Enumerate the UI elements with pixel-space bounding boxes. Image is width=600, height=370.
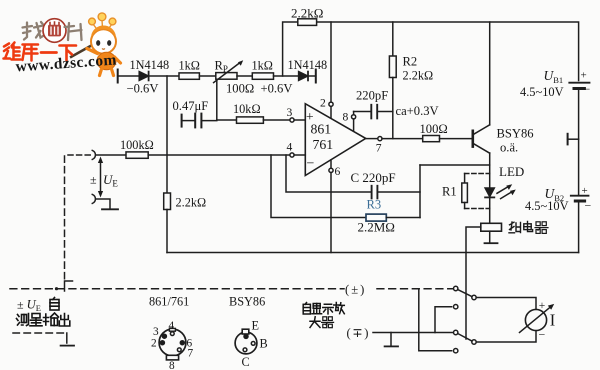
wire R2 to output node (392, 78, 394, 139)
dashed wire measurement vertical (64, 156, 66, 280)
watermark mascot crown (89, 13, 116, 30)
wire D1 to 1k (149, 75, 179, 77)
resistor 2.2k input shunt (164, 193, 171, 210)
svg-text:220pF: 220pF (356, 88, 388, 102)
svg-text:1kΩ: 1kΩ (179, 59, 200, 73)
connector pin 3 (162, 334, 166, 338)
wire 1k to node and D2 (274, 75, 299, 77)
battery mid tap terminal (567, 134, 569, 145)
LED D3 (485, 188, 494, 197)
resistor 10k (237, 117, 264, 123)
wire between batteries (578, 89, 580, 195)
connector pin 6 (180, 341, 184, 345)
watermark red char yi (41, 51, 57, 54)
svg-text:−: − (539, 327, 546, 341)
svg-text:4.5~10V: 4.5~10V (520, 85, 564, 99)
svg-text:8: 8 (169, 360, 175, 370)
switch S2 contact D (454, 330, 458, 334)
switch S2 contact F (454, 349, 458, 353)
capacitor C 220pF feedback (371, 186, 373, 199)
input terminal arc lower (92, 194, 95, 203)
wire emitter down (489, 153, 491, 188)
pin 2 circle (329, 102, 333, 106)
wire LED to relay (489, 197, 491, 223)
dashed wire output lower left (13, 332, 64, 334)
connector pin 8 tab (166, 355, 178, 360)
relay bottom terminal (489, 231, 491, 243)
wire pin2 from rail (330, 22, 332, 102)
svg-text:1N4148: 1N4148 (288, 58, 328, 72)
connector tab E (242, 329, 249, 334)
pin 8 stub and circle (353, 119, 355, 131)
watermark char pian (65, 23, 82, 40)
transistor Q1 BSY86 (471, 131, 474, 147)
svg-text:−: − (584, 82, 591, 96)
label relay char qi (535, 222, 548, 234)
svg-text:R3: R3 (367, 198, 382, 212)
svg-text:1N4148: 1N4148 (130, 58, 170, 72)
resistor R2 (389, 56, 396, 78)
UE source double arrow (100, 160, 102, 194)
battery UB2 (571, 195, 589, 197)
dashed wire measurement tap horizontal to input (68, 154, 91, 156)
label amplifier char zi (305, 303, 307, 305)
svg-text:R1: R1 (442, 185, 457, 199)
wire R2 branch from rail (392, 22, 394, 56)
wire C feedback drop (286, 155, 371, 192)
connector pin E (244, 334, 248, 338)
svg-text:8: 8 (343, 111, 349, 124)
resistor 1k (second) (252, 73, 273, 79)
label amplifier char da (310, 317, 320, 328)
meter M1 (525, 309, 546, 330)
svg-text:±: ± (90, 173, 97, 187)
wire RP wiper down (216, 80, 218, 120)
wire lower terminal to ground (97, 199, 111, 209)
input terminal arc upper (92, 150, 95, 159)
wire pin2 stub to op-amp edge (330, 106, 332, 118)
connector pin 2 (160, 341, 164, 345)
svg-text:2: 2 (151, 337, 157, 349)
label relay char dian (524, 224, 531, 230)
svg-text:4: 4 (287, 141, 293, 154)
svg-text:2.2kΩ: 2.2kΩ (291, 6, 323, 21)
svg-text:761: 761 (313, 137, 334, 152)
resistor R1 (462, 183, 468, 203)
diode D1 1N4148 (139, 72, 148, 81)
wire feedback node vertical (419, 165, 421, 218)
svg-text:I: I (550, 311, 556, 330)
watermark red char ku (23, 45, 39, 61)
switch S1 contact B (472, 295, 476, 299)
svg-text:+: + (539, 300, 546, 312)
svg-text:+: + (582, 185, 588, 197)
dashed net (plusminus) line left (10, 288, 344, 290)
wire 10k row (217, 119, 237, 121)
svg-text:861/761: 861/761 (149, 295, 189, 309)
connector outline BSY86 (235, 332, 257, 354)
svg-text:2.2MΩ: 2.2MΩ (358, 219, 395, 234)
diode D2 1N4148 (299, 72, 308, 81)
switch S2 arm (458, 334, 472, 342)
svg-text:7: 7 (376, 142, 382, 155)
label output char chu (59, 314, 70, 327)
svg-text:10kΩ: 10kΩ (233, 102, 261, 116)
wire clamp node vertical down to input node (166, 76, 168, 193)
wire collector branch from rail (489, 22, 491, 125)
corner elbow at dashed junction (65, 281, 73, 291)
svg-text:100kΩ: 100kΩ (120, 138, 154, 152)
capacitor 0.47uF plates (194, 114, 196, 128)
wire RP to 1k second (237, 75, 252, 77)
wire (plusminus) branch to contact F (419, 289, 452, 351)
wire bracket contact C to row (435, 307, 452, 333)
watermark char zhao (23, 22, 44, 40)
wire 1k to RP (199, 75, 215, 77)
svg-text:LED: LED (499, 164, 524, 179)
watermark mascot eyes (96, 40, 100, 46)
wire feedback to emitter (420, 164, 490, 166)
svg-text:(∓): (∓) (347, 326, 370, 340)
svg-text:3: 3 (287, 106, 293, 119)
watermark red char wei (4, 43, 21, 60)
op-amp U1 861/761 (305, 104, 365, 176)
svg-text:C: C (242, 355, 250, 369)
svg-text:C 220pF: C 220pF (351, 170, 396, 185)
svg-text:861: 861 (311, 122, 332, 137)
LED light arrows (497, 186, 510, 194)
svg-text:2: 2 (320, 97, 326, 110)
meter needle (520, 307, 551, 333)
watermark chip face (43, 19, 66, 43)
svg-text:3: 3 (153, 326, 159, 338)
label amplifier char shi (323, 304, 333, 314)
connector pin C (243, 348, 247, 352)
battery UB1 (569, 82, 589, 84)
label output char liang (32, 314, 40, 318)
svg-text:2.2kΩ: 2.2kΩ (403, 69, 434, 83)
wire output row pin7 (366, 138, 378, 140)
connector pin B (251, 342, 255, 346)
pin 3 node circle (290, 118, 294, 122)
wire (minusplus) row (373, 332, 454, 334)
capacitor 0.47uF terminal bar (181, 115, 183, 127)
svg-text:BSY86: BSY86 (497, 127, 534, 141)
label amplifier char fang (334, 303, 345, 314)
wire relay left to switch (466, 227, 481, 339)
relay coil K1 (481, 223, 502, 231)
label relay char ji (509, 222, 521, 233)
svg-text:E: E (252, 318, 260, 332)
pin 7 circle (378, 137, 382, 141)
switch S2 contact E (472, 340, 476, 344)
svg-text:+: + (581, 70, 587, 82)
switch S1 contact A (454, 286, 458, 290)
svg-text:B: B (260, 336, 268, 350)
svg-text:ca+0.3V: ca+0.3V (396, 104, 439, 118)
svg-text:−: − (585, 199, 592, 213)
label output char ce (17, 315, 20, 326)
svg-text:2.2kΩ: 2.2kΩ (176, 196, 207, 210)
wire input row pin4 (97, 154, 127, 156)
svg-text:4.5~10V: 4.5~10V (525, 199, 569, 213)
svg-text:0.47μF: 0.47μF (173, 99, 209, 113)
svg-text:o.ä.: o.ä. (500, 141, 518, 155)
watermark red char xia (60, 46, 77, 61)
wire D2 to right terminal (308, 75, 316, 77)
svg-text:7: 7 (188, 347, 194, 359)
ground lower left (61, 345, 74, 347)
svg-text:100Ω: 100Ω (420, 122, 448, 136)
capacitor 220pF top (354, 111, 371, 113)
label amplifier char qi2 (322, 317, 334, 328)
wire 2.2k to bottom rail (166, 210, 168, 253)
svg-text:−: − (307, 157, 315, 172)
resistor 100 base (423, 136, 440, 142)
wire UB2 to bottom rail (578, 202, 580, 253)
resistor R3 2.2M (366, 214, 386, 221)
ground stub on (minusplus) row (390, 333, 392, 346)
wire 10k to pin3 (263, 119, 289, 121)
svg-text:+0.6V: +0.6V (261, 82, 293, 96)
resistor 100k (126, 152, 148, 158)
svg-text:6: 6 (335, 165, 341, 178)
wire top supply rail (283, 22, 579, 81)
wire R3 feedback drop (271, 155, 366, 218)
connector pin 7 (177, 348, 181, 352)
dashed net (plusminus) line right (377, 288, 454, 290)
connector pin 4 (170, 332, 174, 336)
svg-text:−0.6V: −0.6V (127, 82, 159, 96)
svg-text:BSY86: BSY86 (229, 295, 265, 309)
wire diode row left (118, 75, 140, 77)
label output char shu (44, 313, 59, 325)
ground for UE (102, 208, 118, 210)
terminal bar left of diode chain (117, 70, 119, 83)
wire contact E to meter (476, 331, 536, 342)
terminal bar right of diode chain (315, 70, 317, 83)
wire contact B to meter (476, 298, 536, 310)
resistor 1k (first) (179, 73, 199, 79)
resistor 2.2k top rail (298, 19, 317, 26)
watermark mascot head (91, 29, 116, 53)
svg-text:100Ω: 100Ω (226, 82, 254, 96)
pin 4 node circle (290, 153, 294, 157)
svg-text:(±): (±) (345, 282, 366, 296)
label amplifier char xian (313, 304, 320, 309)
watermark mascot stick (70, 44, 94, 58)
R1 dashed parallel branch (465, 173, 490, 175)
connector top tab (169, 328, 175, 331)
watermark mascot body (97, 52, 116, 70)
pin 6 stub circle and wire to rail (330, 160, 332, 168)
connector outline 861/761 (159, 329, 186, 356)
label output char zi2 (53, 298, 55, 300)
switch S1 contact C (454, 305, 458, 309)
potentiometer RP 100ohm (216, 73, 237, 80)
svg-text:R2: R2 (403, 55, 418, 69)
junction dot on dashed net (55, 287, 58, 290)
switch S1 arm (458, 290, 472, 297)
wire corner to ground lower left (66, 333, 68, 343)
svg-text:4: 4 (169, 320, 175, 332)
bottom rail (167, 252, 579, 254)
svg-text:1kΩ: 1kΩ (252, 59, 273, 73)
